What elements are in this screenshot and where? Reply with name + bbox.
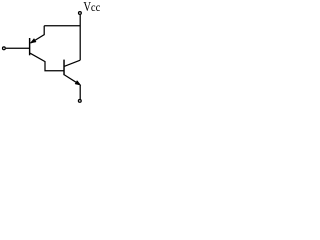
svg-text:cc: cc	[91, 2, 100, 14]
